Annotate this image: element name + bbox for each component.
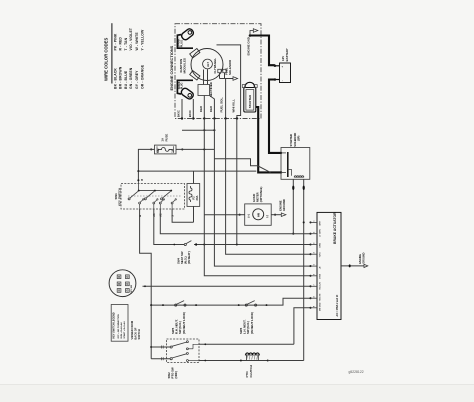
- svg-text:ENGINE CONNECTIONS: ENGINE CONNECTIONS: [169, 45, 174, 90]
- svg-text:SOLENOID: SOLENOID: [228, 60, 232, 75]
- svg-text:OR - ORANGE: OR - ORANGE: [140, 64, 144, 89]
- svg-text:6: 6: [314, 274, 316, 275]
- svg-text:8: 8: [314, 296, 316, 297]
- svg-text:(IN NEUT LOCK): (IN NEUT LOCK): [182, 312, 186, 334]
- svg-text:ENGINE GND: ENGINE GND: [247, 37, 251, 55]
- svg-text:HOUR: HOUR: [252, 194, 256, 202]
- svg-text:ALT: ALT: [207, 62, 210, 67]
- svg-text:GRN: GRN: [320, 243, 322, 248]
- svg-text:OFF = NO CONNECTION: OFF = NO CONNECTION: [118, 314, 120, 339]
- svg-text:(-): (-): [265, 215, 269, 218]
- svg-text:METER: METER: [255, 192, 259, 201]
- svg-text:CLUTCH: CLUTCH: [249, 365, 253, 377]
- svg-text:BU - BLUE: BU - BLUE: [124, 70, 128, 89]
- svg-text:3: 3: [314, 243, 316, 244]
- svg-text:5: 5: [314, 264, 316, 265]
- svg-text:GN - GREEN: GN - GREEN: [129, 67, 133, 89]
- svg-text:B: B: [141, 179, 144, 181]
- svg-text:T2FU: T2FU: [320, 252, 322, 258]
- svg-text:RED: RED: [199, 105, 203, 112]
- svg-text:(OPTIONAL): (OPTIONAL): [259, 187, 263, 203]
- svg-text:MR: MR: [156, 149, 160, 153]
- svg-text:STARTER: STARTER: [248, 94, 252, 108]
- svg-text:PLUG: PLUG: [180, 40, 184, 47]
- svg-text:GROUND: GROUND: [282, 199, 286, 211]
- svg-text:BK/C: BK/C: [188, 109, 192, 117]
- svg-text:VIEWED FROM: VIEWED FROM: [130, 321, 134, 340]
- svg-text:20A: 20A: [195, 196, 199, 201]
- svg-text:FLYWHEEL: FLYWHEEL: [213, 58, 217, 74]
- svg-text:RED: RED: [209, 105, 213, 112]
- svg-text:GROUND: GROUND: [363, 252, 366, 263]
- svg-text:R - RED: R - RED: [119, 37, 123, 51]
- svg-text:7: 7: [314, 284, 316, 285]
- svg-text:GY - GREY: GY - GREY: [135, 70, 139, 89]
- svg-text:+: +: [280, 66, 284, 68]
- svg-text:F2: F2: [192, 196, 196, 200]
- svg-text:MODULES: MODULES: [183, 58, 187, 73]
- svg-text:GY/B: GY/B: [320, 273, 322, 279]
- svg-text:BRAKE ACTUATOR: BRAKE ACTUATOR: [333, 212, 337, 244]
- svg-text:ENGINE: ENGINE: [359, 254, 362, 264]
- svg-text:2: 2: [314, 232, 316, 233]
- svg-text:(OFF): (OFF): [174, 371, 178, 379]
- svg-text:TN/CTN: TN/CTN: [320, 293, 322, 301]
- svg-text:FUSE: FUSE: [164, 134, 168, 142]
- svg-text:RECTIFIER: RECTIFIER: [209, 82, 213, 97]
- svg-text:T - TAN: T - TAN: [124, 37, 128, 50]
- svg-text:-: -: [280, 80, 284, 81]
- svg-text:1A: 1A: [170, 149, 174, 152]
- svg-text:MB GND: MB GND: [320, 302, 322, 311]
- svg-text:BATTERY: BATTERY: [285, 48, 289, 61]
- svg-text:WHT: WHT: [320, 220, 322, 225]
- svg-text:WIRE COLOR CODES: WIRE COLOR CODES: [104, 38, 109, 81]
- svg-text:(SP): (SP): [297, 136, 301, 141]
- svg-text:KEY SWITCH: KEY SWITCH: [118, 188, 122, 206]
- svg-text:KEY SW: KEY SW: [131, 284, 133, 294]
- svg-text:VIO - VIOLET: VIO - VIOLET: [129, 27, 133, 50]
- svg-text:W - WHITE: W - WHITE: [135, 32, 139, 51]
- svg-text:9: 9: [314, 306, 316, 307]
- svg-text:SWITCH: SWITCH: [137, 329, 141, 339]
- svg-text:WHI KILL: WHI KILL: [232, 99, 236, 112]
- svg-text:1: 1: [314, 221, 316, 222]
- svg-text:LT GRN: LT GRN: [320, 229, 322, 237]
- svg-text:BK - BLACK: BK - BLACK: [113, 68, 117, 89]
- svg-text:PK - PINK: PK - PINK: [113, 33, 117, 50]
- svg-text:BACK OF: BACK OF: [133, 327, 137, 339]
- svg-text:KEY SWITCH LEGEND: KEY SWITCH LEGEND: [113, 312, 116, 338]
- svg-text:FUEL SOL.: FUEL SOL.: [220, 97, 224, 113]
- svg-text:(+): (+): [246, 214, 250, 217]
- svg-text:ENGINE: ENGINE: [278, 200, 282, 211]
- svg-text:STARTER: STARTER: [289, 134, 293, 147]
- svg-text:BK/C: BK/C: [177, 109, 181, 117]
- svg-text:RD-12V: RD-12V: [320, 281, 322, 289]
- svg-text:(IN NEUT LOCK): (IN NEUT LOCK): [250, 312, 254, 334]
- svg-text:BR - BROWN: BR - BROWN: [119, 66, 123, 89]
- svg-text:Y - YELLOW: Y - YELLOW: [140, 29, 144, 51]
- svg-text:(IN SEAT): (IN SEAT): [187, 251, 191, 264]
- svg-text:g5228122: g5228122: [349, 370, 364, 374]
- svg-text:PLUG: PLUG: [182, 82, 184, 89]
- svg-text:SOLENOID: SOLENOID: [293, 133, 297, 147]
